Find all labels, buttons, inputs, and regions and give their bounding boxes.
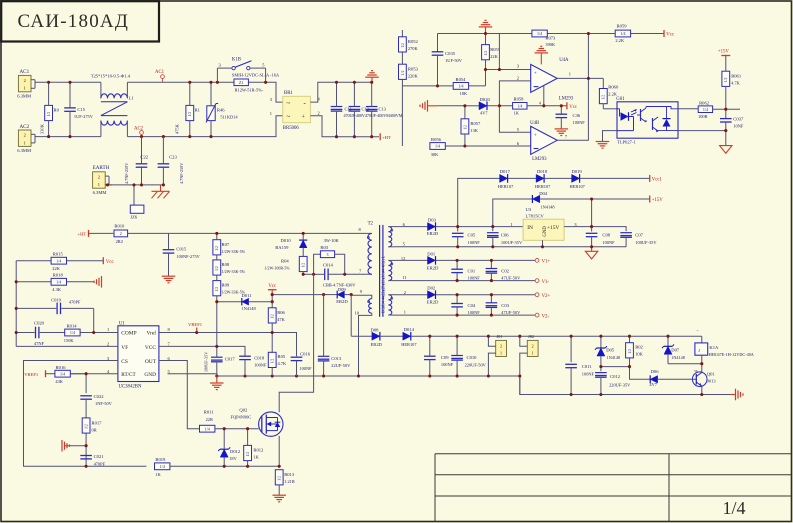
diode D02: [395, 286, 536, 305]
svg-text:4.7K: 4.7K: [731, 80, 740, 85]
wire aux tap: [350, 295, 352, 337]
svg-text:R12W-51R-5%-: R12W-51R-5%-: [235, 87, 264, 92]
capacitor C12 bulk: [349, 82, 361, 136]
wire comparator feedback riser: [587, 34, 589, 79]
svg-text:C09: C09: [441, 355, 449, 360]
left feedback bus: [15, 261, 17, 347]
svg-text:47UF-50V: 47UF-50V: [501, 276, 521, 281]
svg-text:R053: R053: [408, 66, 419, 71]
svg-text:1/2: 1/2: [724, 77, 728, 82]
resistor R056: [430, 137, 531, 157]
svg-text:C018: C018: [254, 355, 265, 360]
svg-text:1K: 1K: [155, 472, 161, 477]
svg-text:AC1: AC1: [20, 69, 30, 75]
resistor R1: [175, 82, 201, 136]
relay contact K1B: [217, 57, 265, 82]
svg-text:2.2K: 2.2K: [608, 91, 617, 96]
svg-text:K1A: K1A: [709, 345, 719, 350]
svg-text:10NF: 10NF: [733, 124, 744, 129]
svg-text:1/2: 1/2: [271, 314, 275, 319]
junction: [106, 183, 165, 186]
svg-text:2: 2: [24, 78, 26, 83]
power Vcc1: [650, 175, 663, 183]
wire comparator top rail: [438, 33, 665, 35]
wire pin6 OUT to gate: [159, 361, 200, 429]
svg-text:C01: C01: [468, 269, 476, 274]
svg-text:ER2D: ER2D: [427, 231, 439, 236]
wire pin8 Vref rail: [159, 333, 297, 357]
svg-text:Z1: Z1: [239, 80, 243, 85]
svg-text:1/2W-33K-5%: 1/2W-33K-5%: [222, 269, 246, 274]
resistor R016: [55, 365, 86, 384]
svg-text:C12: C12: [362, 107, 369, 112]
svg-text:HER107: HER107: [570, 184, 586, 189]
wire pin3 CS loop: [24, 361, 147, 467]
svg-text:47UF-50V: 47UF-50V: [501, 310, 521, 315]
capacitor C22: [124, 137, 149, 185]
svg-text:C037: C037: [733, 117, 744, 122]
svg-text:1/2: 1/2: [85, 424, 89, 429]
svg-text:ER2D: ER2D: [427, 265, 439, 270]
wire U4B output riser: [557, 78, 588, 140]
resistor R013: [275, 470, 295, 496]
svg-text:U1: U1: [119, 322, 125, 327]
transformer T2 aux winding: [351, 289, 372, 376]
svg-text:1/4: 1/4: [703, 107, 708, 112]
wire bottom to BR1: [127, 116, 282, 137]
svg-text:1/2: 1/2: [271, 359, 275, 364]
junction: [428, 335, 521, 338]
resistor R015: [16, 251, 103, 271]
svg-text:IN: IN: [527, 225, 533, 231]
svg-text:1: 1: [511, 222, 513, 227]
svg-text:D018: D018: [537, 169, 548, 174]
svg-text:T2: T2: [368, 221, 374, 226]
svg-text:K1B: K1B: [232, 57, 241, 62]
capacitor C07: [620, 233, 657, 247]
svg-text:V1+: V1+: [542, 260, 551, 265]
title box: [1, 1, 159, 41]
svg-text:100NF: 100NF: [602, 240, 615, 245]
wire top to BR1: [162, 82, 283, 102]
svg-text:1.21R: 1.21R: [284, 479, 295, 484]
svg-text:D012: D012: [230, 449, 241, 454]
resistor R0: [40, 82, 60, 136]
junction: [85, 372, 88, 468]
power +HT right: [380, 133, 391, 140]
op-amp U4A LM293: [517, 58, 574, 102]
ground below R013: [272, 495, 286, 502]
varistor R46: [206, 82, 238, 136]
wire AC2 bottom: [38, 136, 101, 138]
svg-text:2: 2: [24, 133, 26, 138]
svg-text:D08: D08: [371, 328, 380, 333]
svg-text:R013: R013: [284, 472, 295, 477]
svg-text:4.7NF-250V: 4.7NF-250V: [124, 163, 129, 184]
svg-text:10K: 10K: [635, 352, 643, 357]
capacitor C014: [314, 262, 345, 280]
svg-text:C014: C014: [323, 262, 334, 267]
svg-text:100R: 100R: [698, 114, 708, 119]
resistor R04: [264, 256, 307, 274]
svg-text:J01: J01: [496, 334, 502, 339]
power +HT left: [78, 230, 89, 237]
svg-text:J: J: [698, 348, 700, 353]
svg-text:1/2: 1/2: [47, 112, 51, 117]
zener D012: [218, 429, 241, 467]
svg-text:LM293: LM293: [559, 96, 574, 101]
wire pin2 to pin5 link: [499, 81, 530, 132]
svg-text:САИ-180АД: САИ-180АД: [18, 11, 129, 32]
wire snubber to T2 pin7: [345, 273, 372, 275]
svg-text:1N4148: 1N4148: [671, 355, 685, 360]
node V1+: [535, 259, 550, 265]
svg-text:C035: C035: [445, 51, 456, 56]
svg-text:22R: 22R: [206, 417, 213, 422]
svg-text:18V: 18V: [229, 456, 237, 461]
svg-text:1/4: 1/4: [537, 31, 542, 36]
svg-text:U4A: U4A: [559, 58, 569, 63]
resistor R052: [399, 30, 419, 64]
svg-text:1: 1: [24, 86, 26, 91]
junction: [47, 81, 373, 139]
capacitor C01: [451, 260, 480, 280]
svg-text:HER107: HER107: [535, 184, 551, 189]
wire ground rail step: [520, 376, 731, 395]
net VREF1 at pin8: [117, 332, 119, 334]
diode D04: [532, 191, 649, 209]
svg-text:LM293: LM293: [532, 157, 547, 162]
capacitor C23: [158, 137, 185, 185]
svg-text:1/2: 1/2: [215, 287, 219, 292]
capacitor C017 100UF-35V: [204, 346, 236, 376]
diode D09: [324, 287, 352, 304]
resistor R057: [461, 106, 481, 146]
ground signal at D020: [420, 100, 465, 112]
svg-text:C016: C016: [300, 351, 311, 356]
wire D07 to coil node: [668, 363, 702, 365]
svg-text:R016: R016: [56, 365, 67, 370]
svg-text:R015: R015: [53, 251, 64, 256]
svg-text:U3: U3: [526, 207, 532, 212]
svg-text:43K: 43K: [55, 379, 63, 384]
svg-text:−: −: [696, 328, 699, 333]
svg-text:100NF-275V: 100NF-275V: [176, 254, 200, 259]
resistor R017: [82, 418, 102, 466]
wire pin7 VCC rail: [159, 346, 245, 356]
svg-text:18K: 18K: [460, 91, 468, 96]
wire pin4 RT/CT: [71, 373, 118, 375]
svg-text:R46: R46: [217, 108, 225, 113]
junction: [15, 280, 96, 334]
svg-text:1/2W-100R-5%: 1/2W-100R-5%: [264, 266, 290, 271]
transistor Q02 FQP4N90C: [231, 407, 283, 436]
svg-text:C36: C36: [573, 113, 581, 118]
regulator U3 L7815CV: [511, 207, 578, 247]
svg-text:56: 56: [694, 369, 698, 373]
junction: [195, 331, 274, 348]
svg-text:390K: 390K: [545, 42, 556, 47]
resistor R019: [155, 457, 280, 477]
ground above U4A vcc pin: [535, 46, 549, 64]
svg-text:100UF-35V: 100UF-35V: [635, 240, 657, 245]
svg-text:+HT: +HT: [382, 135, 391, 140]
svg-text:4.3K: 4.3K: [52, 287, 61, 292]
svg-text:1/4: 1/4: [205, 426, 210, 431]
page number 1/4: [722, 498, 745, 518]
ground open below C037: [720, 131, 732, 154]
svg-text:COMP: COMP: [121, 331, 136, 337]
connector EARTH: [93, 165, 112, 195]
diode D018: [535, 169, 572, 189]
capacitor C08: [586, 227, 615, 247]
svg-text:D020: D020: [480, 97, 491, 102]
svg-text:D09: D09: [338, 287, 347, 292]
svg-text:VF: VF: [121, 345, 128, 351]
svg-text:Vcc: Vcc: [106, 260, 114, 265]
svg-text:R04: R04: [281, 258, 289, 263]
svg-text:1/2: 1/2: [463, 125, 467, 130]
wire D05-R02 node: [601, 366, 630, 368]
svg-text:C15: C15: [77, 107, 85, 112]
zener D07: [662, 336, 685, 364]
svg-text:2: 2: [120, 231, 122, 236]
resistor R073: [532, 30, 556, 47]
diode D017: [498, 169, 536, 189]
svg-text:R06: R06: [277, 310, 285, 315]
svg-text:U4B: U4B: [530, 121, 539, 126]
resistor R058: [513, 97, 567, 116]
capacitor C020: [16, 321, 64, 347]
svg-text:V2-: V2-: [542, 314, 550, 319]
svg-text:V2+: V2+: [542, 294, 551, 299]
resistor R061: [722, 71, 742, 109]
svg-text:D011: D011: [242, 293, 253, 298]
capacitor C037: [720, 109, 744, 130]
chassis ground earth: [152, 185, 170, 198]
svg-text:30K: 30K: [431, 152, 439, 157]
connector J01: [488, 334, 506, 376]
wire BR1 pin2 to bottom bus: [310, 116, 379, 137]
junction: [215, 232, 305, 303]
wire pin1 COMP: [109, 332, 118, 334]
capacitor C022: [80, 374, 112, 418]
junction: [456, 293, 493, 317]
wire R053 long drop: [401, 86, 403, 146]
svg-text:R07: R07: [222, 242, 230, 247]
svg-text:R0: R0: [54, 108, 60, 113]
svg-text:13K: 13K: [470, 128, 478, 133]
svg-text:C22: C22: [140, 155, 148, 160]
svg-text:R05: R05: [278, 354, 286, 359]
wire winding3 return: [395, 314, 536, 316]
svg-text:~: ~: [287, 113, 291, 121]
ground open secondary common: [585, 247, 597, 259]
capacitor C018: [239, 355, 267, 376]
svg-text:FQP4N90C: FQP4N90C: [231, 414, 252, 419]
transformer T2 primary winding: [359, 221, 374, 274]
svg-text:1/2: 1/2: [602, 95, 606, 100]
svg-text:470PF: 470PF: [94, 461, 106, 466]
resistor R011: [200, 410, 259, 432]
capacitor C011: [565, 336, 594, 394]
label CBB-4.7NF-630V: [323, 283, 356, 288]
svg-text:1: 1: [500, 351, 502, 356]
wire to D017 rail: [458, 178, 500, 226]
svg-text:2: 2: [107, 342, 109, 347]
svg-text:VREF1: VREF1: [188, 322, 203, 327]
svg-text:47K: 47K: [277, 317, 285, 322]
ground signal right end: [731, 389, 744, 401]
svg-text:2: 2: [517, 75, 519, 80]
svg-text:EC2834-44(22)(25)(13)(16)44-4(: EC2834-44(22)(25)(13)(16)44-4(6)()-L: [382, 256, 386, 313]
svg-text:R1: R1: [195, 108, 201, 113]
junction: [456, 259, 493, 282]
label SMIH-12VDC-SL-A-16A: [232, 72, 280, 77]
svg-text:22UF-50V: 22UF-50V: [331, 363, 351, 368]
svg-text:T25*15*10-9.5-Ф1.4: T25*15*10-9.5-Ф1.4: [91, 74, 131, 79]
wire U4A output: [557, 77, 603, 79]
svg-text:1: 1: [532, 351, 534, 356]
svg-text:C04: C04: [468, 303, 476, 308]
svg-text:2.2K: 2.2K: [615, 38, 624, 43]
svg-text:BA159: BA159: [275, 245, 289, 250]
svg-text:R08: R08: [222, 262, 230, 267]
svg-text:2: 2: [98, 174, 100, 179]
svg-text:100NF: 100NF: [468, 276, 481, 281]
capacitor C15: [64, 82, 94, 136]
svg-text:C08: C08: [602, 233, 610, 238]
svg-text:SMIH-12VDC-SL-A -16A: SMIH-12VDC-SL-A -16A: [232, 72, 280, 77]
svg-text:1/2: 1/2: [484, 51, 488, 56]
ground above top rail: [479, 20, 493, 33]
svg-text:22K: 22K: [52, 266, 60, 271]
svg-text:1: 1: [270, 111, 272, 116]
svg-text:1/4: 1/4: [458, 84, 463, 89]
svg-text:Q02: Q02: [239, 407, 248, 412]
svg-text:4.7K: 4.7K: [278, 361, 287, 366]
resistor R018: [16, 273, 94, 293]
wire winding2 return: [395, 280, 536, 282]
svg-text:6.3MM: 6.3MM: [93, 190, 107, 195]
ground below C36: [555, 129, 569, 136]
svg-text:UC3842BN: UC3842BN: [119, 384, 142, 389]
resistor R054: [453, 77, 485, 96]
svg-text:D03: D03: [428, 218, 437, 223]
wire Vcc node vertical: [271, 295, 273, 302]
spark gap JZ6: [130, 185, 144, 220]
resistor R08: [213, 255, 246, 275]
svg-text:1/4: 1/4: [60, 371, 65, 376]
wire opto output bottom: [678, 130, 726, 132]
svg-text:AC1: AC1: [155, 70, 165, 75]
svg-text:R061: R061: [731, 73, 742, 78]
junction: [456, 197, 593, 248]
svg-text:1/4: 1/4: [435, 144, 440, 149]
ground above C13: [365, 71, 379, 83]
svg-text:1/4: 1/4: [70, 330, 75, 335]
ground signal at R017: [62, 440, 86, 452]
svg-text:D014: D014: [404, 327, 415, 332]
resistor R06: [268, 302, 285, 333]
svg-text:6.3MM: 6.3MM: [17, 148, 31, 153]
svg-text:2: 2: [500, 343, 502, 348]
power Vcc top right: [664, 30, 674, 38]
svg-text:AC2: AC2: [134, 126, 144, 131]
junction: [223, 427, 281, 468]
svg-text:G01: G01: [616, 97, 625, 102]
node V2-: [535, 313, 549, 319]
zener D05: [595, 336, 620, 366]
svg-text:+HT: +HT: [78, 231, 87, 236]
svg-text:2: 2: [532, 343, 534, 348]
svg-text:1/4: 1/4: [56, 280, 61, 285]
wire pin3 comparator: [486, 69, 531, 71]
svg-text:D010: D010: [281, 238, 292, 243]
connector J02: [520, 334, 538, 394]
svg-text:GND: GND: [144, 372, 156, 378]
svg-text:R052: R052: [408, 39, 419, 44]
svg-text:R019: R019: [155, 457, 166, 462]
svg-text:3: 3: [327, 252, 329, 257]
svg-text:D017: D017: [500, 169, 511, 174]
wire R060 to opto: [603, 108, 617, 110]
ground below C015: [162, 276, 176, 283]
transistor Q01 9013: [692, 369, 716, 387]
svg-text:1/2: 1/2: [302, 263, 306, 268]
resistor R03: [314, 238, 345, 274]
optocoupler G01 TLP627-1: [616, 97, 678, 144]
svg-text:V1-: V1-: [542, 280, 550, 285]
svg-text:OUT: OUT: [145, 359, 157, 365]
svg-text:4V7: 4V7: [480, 110, 488, 115]
svg-text:100NF: 100NF: [468, 310, 481, 315]
svg-text:C010: C010: [467, 355, 478, 360]
svg-text:C011: C011: [582, 364, 592, 369]
svg-text:C05: C05: [468, 233, 476, 238]
svg-text:1UF-50V: 1UF-50V: [445, 58, 463, 63]
svg-text:C015: C015: [176, 247, 187, 252]
svg-text:C017: C017: [225, 356, 236, 361]
svg-text:D02: D02: [427, 286, 436, 291]
net VREF1 at R016: [24, 370, 55, 377]
svg-text:C03: C03: [501, 303, 509, 308]
wire top rail to pin3: [498, 34, 500, 70]
wire AC1 top: [38, 81, 101, 83]
capacitor C05: [452, 227, 480, 247]
svg-text:1/2: 1/2: [215, 266, 219, 271]
wire to D04: [493, 199, 533, 227]
svg-text:C022: C022: [94, 394, 105, 399]
svg-text:1/2: 1/2: [401, 70, 405, 75]
svg-text:1N4148: 1N4148: [540, 204, 555, 209]
svg-text:VCC: VCC: [145, 345, 156, 351]
svg-text:150K: 150K: [64, 338, 75, 343]
resistor Z1: [234, 79, 264, 92]
svg-text:1: 1: [107, 327, 109, 332]
junction: [302, 273, 347, 276]
resistor R060: [599, 78, 619, 108]
wire opto input return: [603, 131, 618, 142]
svg-text:D01: D01: [427, 251, 436, 256]
svg-text:1/2: 1/2: [278, 476, 282, 481]
svg-text:C07: C07: [635, 233, 643, 238]
svg-text:2R2: 2R2: [116, 239, 123, 244]
IC U1 UC3842BN: [107, 322, 171, 390]
diode D08: [351, 328, 403, 347]
capacitor C13 bulk: [344, 82, 403, 136]
capacitor C36: [556, 106, 586, 129]
